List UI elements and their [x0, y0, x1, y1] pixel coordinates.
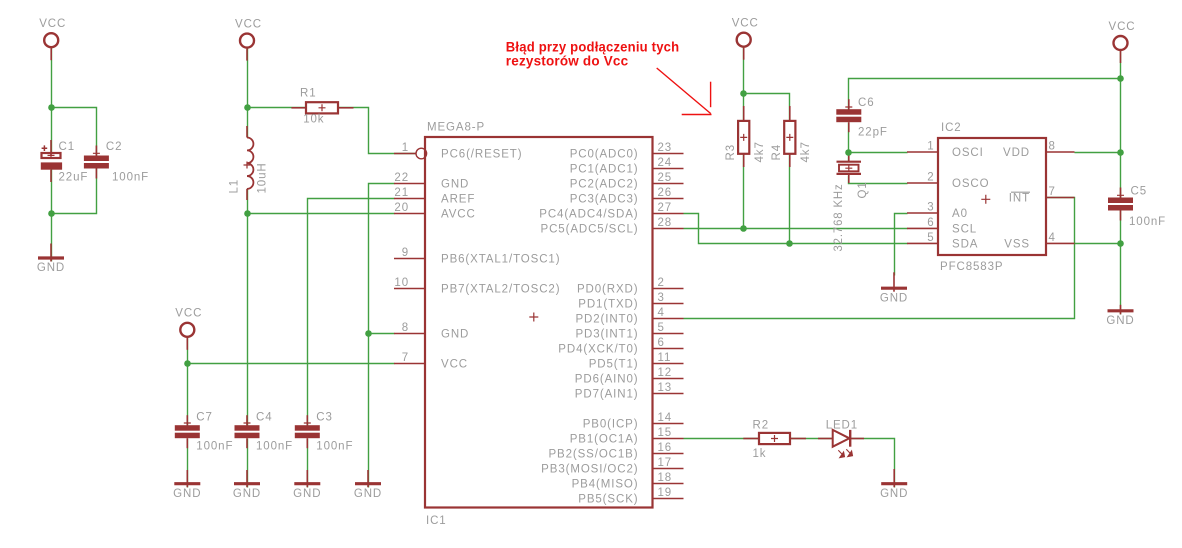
wire pin15 to R2	[684, 438, 760, 440]
wire C6 bottom to OSCI/Q1	[848, 123, 850, 163]
svg-text:9: 9	[402, 247, 409, 259]
svg-text:10uH: 10uH	[256, 162, 268, 193]
IC2 pin 6 SCL	[907, 217, 977, 236]
svg-text:PC3(ADC3): PC3(ADC3)	[570, 194, 639, 206]
IC2 pin 8 VDD	[1003, 141, 1074, 160]
IC1 pin 2 PD0(RXD)	[577, 277, 684, 296]
IC2 pin 4 VSS	[1004, 232, 1074, 251]
wire C2 bottom to GND net	[52, 169, 97, 214]
svg-text:OSCI: OSCI	[952, 147, 984, 159]
resistor R3 4k7 (vertical)	[725, 106, 766, 167]
svg-text:VSS: VSS	[1004, 239, 1030, 251]
svg-text:11: 11	[658, 352, 672, 364]
wire VCC4 down to C5	[1120, 51, 1122, 198]
svg-text:6: 6	[658, 337, 665, 349]
svg-text:AVCC: AVCC	[441, 209, 476, 221]
svg-text:22uF: 22uF	[59, 171, 89, 183]
IC2 pin 3 A0	[907, 202, 968, 221]
svg-text:C5: C5	[1131, 186, 1148, 198]
junction C6/Q1/OSCI	[845, 149, 852, 156]
IC1 pin 19 PB5(SCK)	[578, 487, 683, 506]
svg-text:C2: C2	[106, 141, 123, 153]
svg-text:GND: GND	[173, 488, 201, 500]
wire C6 top to VCC rail	[849, 79, 1121, 110]
svg-text:PB5(SCK): PB5(SCK)	[578, 494, 638, 506]
svg-text:PC6(/RESET): PC6(/RESET)	[441, 149, 522, 161]
svg-text:R4: R4	[771, 144, 783, 161]
IC2 pin 1 OSCI	[907, 141, 984, 160]
svg-text:VCC: VCC	[175, 308, 202, 320]
ground symbol (below C7)	[173, 470, 201, 500]
IC1 pin 11 PD5(T1)	[589, 352, 684, 371]
junction VDD/C5	[1117, 149, 1124, 156]
svg-text:C1: C1	[59, 141, 76, 153]
svg-text:SCL: SCL	[952, 224, 977, 236]
svg-text:AREF: AREF	[441, 194, 475, 206]
svg-text:100nF: 100nF	[316, 441, 353, 453]
IC1 pin 23 PC0(ADC0)	[570, 142, 684, 161]
svg-text:10: 10	[394, 277, 409, 289]
svg-text:24: 24	[658, 157, 673, 169]
svg-text:GND: GND	[441, 329, 469, 341]
svg-text:22: 22	[394, 172, 409, 184]
svg-text:16: 16	[658, 442, 673, 454]
svg-text:14: 14	[658, 412, 673, 424]
IC IC2 PFC8583P box	[938, 122, 1046, 273]
svg-text:GND: GND	[293, 488, 321, 500]
svg-text:4: 4	[658, 307, 665, 319]
wire VCC branch to R4	[744, 94, 790, 121]
wire C5 bottom to GND	[1120, 211, 1122, 315]
capacitor C1 (polarized 22uF)	[41, 140, 89, 183]
svg-text:IC2: IC2	[941, 122, 962, 134]
IC1 pin 10 PB7(XTAL2/TOSC2)	[394, 277, 560, 296]
svg-text:PB3(MOSI/OC2): PB3(MOSI/OC2)	[541, 464, 638, 476]
svg-text:PB0(ICP): PB0(ICP)	[583, 419, 639, 431]
svg-text:PD6(AIN0): PD6(AIN0)	[575, 374, 639, 386]
wire LED to GND	[852, 439, 895, 488]
wire R2 to LED	[791, 438, 833, 440]
svg-text:17: 17	[658, 457, 673, 469]
svg-text:MEGA8-P: MEGA8-P	[427, 122, 485, 134]
ground symbol (below C5)	[1106, 305, 1134, 327]
svg-text:GND: GND	[233, 488, 261, 500]
svg-text:100nF: 100nF	[196, 441, 233, 453]
svg-text:PD0(RXD): PD0(RXD)	[577, 284, 639, 296]
junction VCC/R1/L1	[244, 104, 251, 111]
svg-text:rezystorów do Vcc: rezystorów do Vcc	[506, 53, 629, 68]
junction VCC/C1/C2 top	[48, 104, 55, 111]
IC1 pin 17 PB3(MOSI/OC2)	[541, 457, 683, 476]
wire C1 to GND	[51, 170, 53, 262]
wire VCC branch to C2 top	[52, 108, 97, 156]
resistor R4 4k7 (vertical)	[771, 106, 812, 167]
ground symbol (A0 ground)	[880, 272, 908, 304]
wire A0 to GND	[895, 214, 908, 276]
svg-text:PC2(ADC2): PC2(ADC2)	[570, 179, 639, 191]
resistor R1 10k	[291, 88, 353, 126]
svg-text:13: 13	[658, 382, 673, 394]
svg-text:PFC8583P: PFC8583P	[940, 261, 1003, 273]
supply VCC symbol (above R3/R4)	[732, 18, 759, 60]
svg-text:PD5(T1): PD5(T1)	[589, 359, 639, 371]
svg-text:VCC: VCC	[1109, 21, 1136, 33]
svg-text:PB4(MISO): PB4(MISO)	[572, 479, 639, 491]
svg-text:PD1(TXD): PD1(TXD)	[578, 299, 638, 311]
wire VCC to L1 top	[247, 49, 249, 138]
svg-text:12: 12	[658, 367, 673, 379]
IC IC1 MEGA8-P box	[425, 122, 653, 528]
svg-text:1k: 1k	[753, 448, 767, 460]
svg-text:100nF: 100nF	[256, 441, 293, 453]
annotation: hand-drawn arrow	[657, 68, 712, 115]
IC1 pin 4 PD2(INT0)	[575, 307, 683, 326]
junction R3/R4 VCC	[740, 90, 747, 97]
svg-text:PD7(AIN1): PD7(AIN1)	[575, 389, 639, 401]
wire C7 bottom to GND	[187, 439, 189, 488]
IC1 pin 14 PB0(ICP)	[583, 412, 684, 431]
svg-text:GND: GND	[37, 262, 65, 274]
svg-text:C7: C7	[196, 411, 213, 423]
svg-text:R3: R3	[725, 144, 737, 161]
IC1 pin 15 PB1(OC1A)	[570, 427, 684, 446]
svg-text:7: 7	[1049, 186, 1056, 198]
IC1 pin 28 PC5(ADC5/SCL)	[541, 217, 684, 236]
svg-text:3: 3	[927, 202, 934, 214]
svg-text:23: 23	[658, 142, 673, 154]
svg-text:5: 5	[658, 322, 665, 334]
svg-text:21: 21	[394, 187, 409, 199]
IC1 pin 22 GND	[394, 172, 469, 191]
IC1 pin 27 PC4(ADC4/SDA)	[539, 202, 683, 221]
wire AREF pin21 to C3	[308, 199, 395, 426]
svg-text:L1: L1	[228, 179, 240, 194]
capacitor C5	[1108, 186, 1166, 229]
IC1 pin 13 PD7(AIN1)	[575, 382, 684, 401]
wire R1 left	[248, 107, 307, 109]
wire R1 right to pin1	[339, 108, 416, 154]
svg-text:IC1: IC1	[426, 515, 447, 527]
svg-text:28: 28	[658, 217, 673, 229]
wire VCC3 to C7 top	[187, 338, 189, 426]
IC1 pin 20 AVCC	[394, 202, 476, 221]
IC1 pin 8 GND	[394, 322, 469, 341]
wire C4 bottom to GND	[247, 439, 249, 488]
IC1 pin 6 PD4(XCK/T0)	[558, 337, 683, 356]
svg-text:PB2(SS/OC1B): PB2(SS/OC1B)	[548, 449, 638, 461]
svg-text:7: 7	[402, 352, 409, 364]
svg-text:VDD: VDD	[1003, 147, 1030, 159]
supply VCC symbol (above pin7 rail)	[175, 308, 202, 350]
ground symbol (below C1)	[37, 244, 65, 275]
svg-text:VCC: VCC	[441, 359, 468, 371]
wire INT line	[684, 198, 1075, 319]
IC2 pin 5 SDA	[907, 232, 978, 251]
svg-text:26: 26	[658, 187, 673, 199]
svg-text:PD4(XCK/T0): PD4(XCK/T0)	[558, 344, 638, 356]
svg-text:4k7: 4k7	[754, 141, 766, 162]
svg-text:5: 5	[927, 232, 934, 244]
junction VCC rail left	[184, 360, 191, 367]
IC1 pin 16 PB2(SS/OC1B)	[548, 442, 683, 461]
svg-text:8: 8	[402, 322, 409, 334]
junction C1/C2 bottom	[48, 210, 55, 217]
svg-text:VCC: VCC	[235, 18, 262, 30]
IC1 pin 21 AREF	[394, 187, 475, 206]
svg-text:18: 18	[658, 472, 673, 484]
svg-text:4: 4	[1049, 232, 1056, 244]
ground symbol (below C3)	[293, 470, 321, 500]
wire GND pin8	[369, 333, 395, 335]
svg-text:PD2(INT0): PD2(INT0)	[575, 314, 638, 326]
wire AVCC pin20	[248, 213, 395, 215]
svg-text:8: 8	[1049, 141, 1056, 153]
junction R4/SDA	[786, 240, 793, 247]
svg-text:GND: GND	[880, 292, 908, 304]
capacitor C7	[175, 411, 234, 452]
svg-text:C3: C3	[316, 411, 333, 423]
svg-text:10k: 10k	[303, 114, 324, 126]
IC1 pin 25 PC2(ADC2)	[570, 172, 684, 191]
capacitor C3	[295, 411, 354, 452]
IC1 pin 24 PC1(ADC1)	[570, 157, 684, 176]
wire L1 bottom to C4 top	[247, 189, 249, 426]
ground symbol (digital GND rail)	[354, 470, 382, 500]
svg-text:20: 20	[394, 202, 409, 214]
svg-text:OSCO: OSCO	[952, 178, 989, 190]
svg-text:PC1(ADC1): PC1(ADC1)	[570, 164, 639, 176]
wire R3 bottom to SCL	[743, 154, 745, 229]
svg-text:27: 27	[658, 202, 673, 214]
svg-text:4k7: 4k7	[800, 141, 812, 162]
svg-text:PC0(ADC0): PC0(ADC0)	[570, 149, 639, 161]
svg-text:PC4(ADC4/SDA): PC4(ADC4/SDA)	[539, 209, 638, 221]
svg-text:22pF: 22pF	[858, 127, 888, 139]
svg-text:PC5(ADC5/SCL): PC5(ADC5/SCL)	[541, 224, 639, 236]
capacitor C4	[235, 411, 294, 452]
capacitor C2	[84, 141, 149, 184]
svg-text:PB6(XTAL1/TOSC1): PB6(XTAL1/TOSC1)	[441, 254, 560, 266]
svg-text:6: 6	[927, 217, 934, 229]
svg-text:2: 2	[927, 172, 934, 184]
IC1 pin 7 VCC	[394, 352, 468, 371]
svg-text:Q1: Q1	[857, 181, 869, 198]
svg-text:1: 1	[402, 142, 409, 154]
IC2 pin 2 OSCO	[907, 172, 989, 191]
wire SDA line	[684, 214, 908, 244]
wire C3 bottom to GND	[307, 439, 309, 488]
wire VSS pin4	[1075, 243, 1121, 245]
svg-text:VCC: VCC	[732, 18, 759, 30]
crystal Q1 32.768 kHz	[833, 154, 869, 252]
ground symbol (LED ground)	[880, 469, 908, 500]
svg-text:GND: GND	[880, 488, 908, 500]
svg-text:GND: GND	[354, 488, 382, 500]
supply VCC symbol (top-left)	[39, 18, 66, 60]
svg-text:1: 1	[927, 141, 934, 153]
svg-text:PB7(XTAL2/TOSC2): PB7(XTAL2/TOSC2)	[441, 284, 560, 296]
svg-text:LED1: LED1	[826, 420, 858, 432]
LED LED1	[818, 420, 864, 458]
wire OSCI to IC2 pin1	[849, 152, 908, 154]
supply VCC symbol (top-right)	[1109, 21, 1136, 63]
svg-text:GND: GND	[1106, 315, 1134, 327]
svg-text:32.768 KHz: 32.768 KHz	[833, 184, 845, 252]
svg-text:PD3(INT1): PD3(INT1)	[575, 329, 638, 341]
svg-text:R2: R2	[753, 420, 770, 432]
svg-text:100nF: 100nF	[1129, 216, 1166, 228]
IC1 pin 3 PD1(TXD)	[578, 292, 683, 311]
capacitor C6	[836, 97, 888, 139]
svg-text:Błąd przy podłączeniu tych: Błąd przy podłączeniu tych	[506, 39, 680, 54]
wire VCC rail to pin7	[188, 363, 395, 365]
svg-text:2: 2	[658, 277, 665, 289]
wire GND pin22 down	[369, 184, 395, 488]
svg-text:19: 19	[658, 487, 673, 499]
wire VCC to R3	[743, 48, 745, 121]
inductor L1 10uH	[228, 126, 268, 200]
IC1 pin 1 PC6(/RESET)	[394, 142, 522, 161]
svg-text:15: 15	[658, 427, 673, 439]
svg-text:R1: R1	[300, 88, 317, 100]
svg-text:A0: A0	[952, 208, 968, 220]
supply VCC symbol (above L1)	[235, 18, 262, 60]
ground symbol (below C4)	[233, 470, 261, 500]
svg-text:3: 3	[658, 292, 665, 304]
svg-text:INT: INT	[1009, 193, 1030, 205]
wire SCL line	[684, 228, 908, 230]
svg-text:GND: GND	[441, 179, 469, 191]
junction pin8 GND	[365, 330, 372, 337]
svg-text:C4: C4	[256, 411, 273, 423]
wire VDD pin8	[1075, 152, 1121, 154]
junction R3/SCL	[740, 225, 747, 232]
junction VSS/C5	[1117, 240, 1124, 247]
svg-text:25: 25	[658, 172, 673, 184]
IC1 pin 18 PB4(MISO)	[572, 472, 684, 491]
wire Q1 bottom to OSCO pin2	[849, 176, 908, 184]
IC1 pin 12 PD6(AIN0)	[575, 367, 684, 386]
resistor R2 1k	[743, 420, 806, 460]
junction VCC right top	[1117, 75, 1124, 82]
wire VCC to C1	[51, 48, 53, 153]
svg-text:VCC: VCC	[39, 18, 66, 30]
svg-text:PB1(OC1A): PB1(OC1A)	[570, 434, 639, 446]
IC1 pin 5 PD3(INT1)	[575, 322, 683, 341]
junction L1/AVCC/C4	[244, 210, 251, 217]
svg-text:100nF: 100nF	[112, 171, 149, 183]
IC2 pin 7 INT	[1009, 186, 1075, 205]
svg-text:SDA: SDA	[952, 239, 978, 251]
wire R4 bottom to SDA	[789, 154, 791, 244]
svg-text:C6: C6	[858, 97, 875, 109]
IC1 pin 9 PB6(XTAL1/TOSC1)	[394, 247, 560, 266]
IC1 pin 26 PC3(ADC3)	[570, 187, 684, 206]
